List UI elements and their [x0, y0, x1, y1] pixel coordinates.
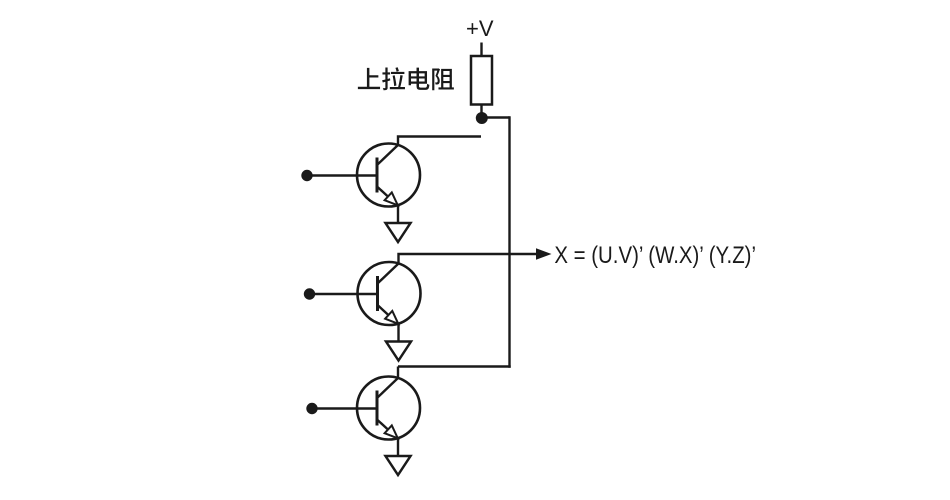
transistor Q1 [357, 144, 420, 207]
node input 1 dot [301, 170, 312, 181]
ground GND2 [386, 342, 411, 361]
node input 3 dot [306, 403, 317, 414]
wire +V to resistor R1 [480, 43, 482, 57]
resistor R1 pull-up [471, 56, 492, 105]
wire resistor R1 to node A [480, 105, 482, 114]
wire Q1 collector (open end below node A) [398, 137, 481, 146]
wire Q3 collector to bus [397, 367, 399, 379]
wire node A to bus [483, 116, 510, 118]
wire input 1 to Q1 base [307, 174, 377, 176]
output arrowhead [536, 248, 552, 260]
wire Q2 emitter to ground [397, 324, 399, 342]
svg-text:X = (U.V)’ (W.X)’ (Y.Z)’: X = (U.V)’ (W.X)’ (Y.Z)’ [554, 242, 756, 269]
node input 2 dot [304, 288, 315, 299]
node A junction dot [476, 112, 488, 124]
wire input 3 to Q3 base [312, 407, 377, 409]
wire bus bottom horizontal [398, 365, 511, 367]
wire Q3 emitter to ground [397, 438, 399, 456]
ground GND1 [386, 223, 411, 242]
wire input 2 to Q2 base [310, 293, 378, 295]
transistor Q3 [357, 377, 420, 440]
ground GND3 [386, 456, 411, 475]
wire Q2 collector to output [399, 254, 538, 264]
svg-text:+V: +V [466, 16, 494, 41]
wire Q1 emitter to ground [397, 205, 399, 223]
wire bus vertical [508, 116, 510, 367]
label 上拉电阻 (pull-up resistor) [358, 67, 454, 90]
transistor Q2 [358, 262, 421, 325]
